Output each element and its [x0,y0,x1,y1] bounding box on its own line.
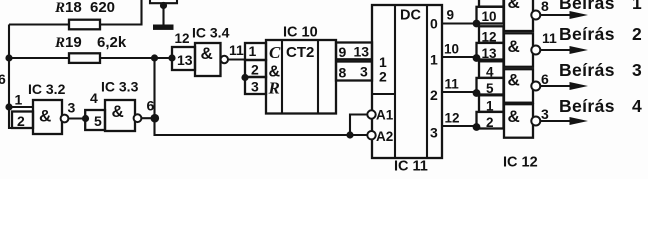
svg-text:2: 2 [17,113,25,129]
svg-text:9: 9 [339,44,347,60]
svg-text:3: 3 [632,60,642,80]
svg-text:3: 3 [360,64,368,80]
link box pins 8/3 [336,62,372,81]
gate IC12a NAND [504,0,533,31]
wire input rail [9,25,12,129]
svg-text:R18: R18 [54,0,82,16]
svg-text:1: 1 [15,92,23,108]
svg-text:2: 2 [379,69,387,85]
svg-text:10: 10 [482,9,497,24]
wire A1 branch [350,115,367,136]
svg-text:2: 2 [486,115,494,130]
svg-text:8: 8 [339,65,347,81]
svg-text:3: 3 [541,106,549,122]
input A1 bubble [367,110,375,118]
counter IC10 [266,40,336,114]
svg-text:IC 3.4: IC 3.4 [192,25,230,41]
wire out Beiras2 [540,49,571,51]
svg-text:IC 3.3: IC 3.3 [101,79,139,95]
wire out Beiras1 [540,14,571,16]
wire R18 left [9,23,69,25]
wire IC3.3 out [142,117,156,119]
svg-text:Beírás: Beírás [559,24,615,44]
wire out Beiras3 [540,85,571,87]
svg-text:11: 11 [445,77,460,92]
svg-text:12: 12 [175,31,190,46]
gate IC12b NAND [504,33,533,67]
gate IC12c pin boxes [479,61,504,78]
svg-text:IC 12: IC 12 [503,155,538,171]
junction A branch [346,131,353,138]
svg-text:1: 1 [430,52,438,68]
svg-text:11: 11 [542,30,557,46]
wire R19 right [100,57,172,59]
svg-text:2: 2 [251,62,259,78]
svg-text:13: 13 [177,52,193,68]
svg-text:A1: A1 [376,108,394,123]
gate IC12c NAND [504,69,533,103]
svg-text:&: & [112,102,124,121]
op IC3.4 NAND [195,43,221,76]
gate IC12a pin boxes [479,0,504,7]
wire pin1 IC3.2 [9,106,33,108]
svg-text:&: & [508,37,520,56]
svg-text:&: & [508,0,520,12]
svg-text:&: & [508,107,520,126]
svg-text:4: 4 [632,96,642,116]
link box pins 9/13 [336,43,372,60]
svg-text:1: 1 [632,0,642,13]
wire R18 to top [100,0,142,25]
svg-text:6: 6 [0,71,6,87]
wire IC11 out2 [442,91,477,93]
svg-text:0: 0 [430,16,438,32]
svg-text:8: 8 [541,0,549,14]
svg-text:5: 5 [486,81,494,96]
svg-text:IC 11: IC 11 [394,159,428,175]
svg-text:9: 9 [447,8,455,23]
junction at pin13 box [168,54,175,61]
resistor R19 [69,53,100,63]
svg-text:R: R [268,79,280,98]
wire top ground link [150,0,177,3]
svg-text:3: 3 [430,125,438,141]
junction top ground [160,2,167,9]
junction R19/feedback [151,54,158,61]
svg-text:5: 5 [94,113,102,129]
wire IC3.4 out [227,58,245,60]
pin 13 box IC3.4 [172,47,195,70]
svg-text:DC: DC [400,8,421,24]
svg-text:620: 620 [90,0,115,16]
gate IC12d pin boxes [479,95,504,112]
svg-text:3: 3 [251,79,259,95]
op IC3.3 NAND [105,100,135,131]
pin 2 box IC10 [245,60,266,77]
svg-text:Beírás: Beírás [559,96,615,116]
svg-text:IC 3.2: IC 3.2 [28,81,66,97]
pin 1 box IC10 [245,43,266,60]
junction IC3.3 out/feedback [151,114,160,123]
svg-text:6: 6 [147,98,155,114]
pin 3 box IC10 [245,77,266,94]
svg-text:10: 10 [444,42,459,57]
svg-text:C: C [269,43,281,62]
junction rail/pin1 [5,103,12,110]
wire feedback net [155,58,368,135]
svg-text:4: 4 [90,90,98,106]
svg-text:13: 13 [354,44,370,60]
svg-text:&: & [201,44,213,63]
svg-text:R19: R19 [54,34,82,51]
gate IC12b pin boxes [479,26,504,43]
svg-text:&: & [508,71,520,90]
resistor R18 [69,20,100,30]
input A2 bubble [367,131,375,139]
svg-text:1: 1 [249,43,257,59]
decoder IC11 [372,5,442,158]
svg-text:CT2: CT2 [286,44,314,61]
wire IC11 out0 [442,22,477,24]
svg-text:13: 13 [482,46,498,61]
wire IC11 out1 [442,56,477,58]
svg-text:IC 10: IC 10 [283,25,318,41]
svg-text:&: & [39,107,51,126]
svg-text:3: 3 [68,100,76,116]
gate IC12d NAND [504,104,533,138]
svg-text:11: 11 [229,42,244,58]
junction at pin5 box [82,115,89,122]
pin 2 box IC3.2 [12,112,33,129]
wire IC3.2 out [69,117,86,119]
svg-text:2: 2 [632,24,642,44]
svg-text:12: 12 [445,111,460,126]
op IC3.2 NAND [33,100,62,134]
wire out Beiras4 [540,120,571,122]
svg-text:Beírás: Beírás [559,60,615,80]
wire R19 left [9,57,69,59]
svg-text:2: 2 [430,87,438,103]
svg-text:Beírás: Beírás [559,0,615,13]
svg-text:6: 6 [541,71,549,87]
junction rail/R19 [5,54,12,61]
pin 5 box IC3.3 [85,110,105,130]
wire IC11 out3 [442,125,477,127]
svg-text:6,2k: 6,2k [97,34,127,51]
junction pins 2-3 [241,74,248,81]
svg-text:A2: A2 [376,129,393,144]
ground [162,5,164,25]
